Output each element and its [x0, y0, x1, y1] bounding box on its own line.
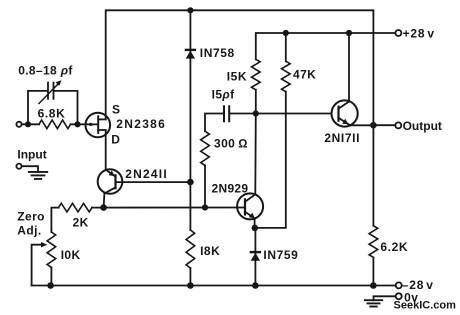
svg-text:+28v: +28v — [403, 26, 435, 40]
capacitor C2 15pf — [223, 106, 225, 121]
svg-text:2NI7II: 2NI7II — [324, 131, 360, 145]
diode D2 1N759 — [251, 252, 260, 261]
svg-text:I5ρf: I5ρf — [212, 88, 235, 102]
wire JFET drain to 2N2411 — [105, 130, 107, 170]
svg-text:D: D — [111, 133, 120, 147]
terminal input ground — [16, 164, 21, 169]
wire bottom rail -28v — [32, 285, 396, 287]
resistor R2 2K — [59, 203, 93, 212]
terminal +28v — [395, 30, 401, 36]
ground (input) — [22, 166, 38, 172]
wire input to gate — [22, 123, 39, 125]
resistor R1 6.8K — [39, 120, 71, 129]
ground (0v) — [374, 296, 396, 300]
svg-text:I0K: I0K — [61, 248, 81, 262]
resistor R5 300 ohm — [201, 131, 210, 165]
diode D1 1N758 — [186, 50, 195, 59]
svg-text:2N24II: 2N24II — [125, 167, 168, 181]
resistor R7 18K — [186, 230, 195, 268]
wire 6.2K leads — [372, 125, 374, 226]
node output junction — [370, 122, 377, 129]
node cap loop left junction — [25, 121, 31, 127]
svg-text:S: S — [112, 103, 120, 117]
svg-text:SeekIC.com: SeekIC.com — [394, 300, 457, 312]
svg-text:Output: Output — [403, 119, 442, 133]
svg-text:6.8K: 6.8K — [38, 107, 66, 121]
wire 2N929 emitter to 1N759 to rail — [254, 218, 256, 228]
terminal 0v — [396, 293, 402, 299]
node 2N929 emitter junction — [252, 225, 259, 232]
resistor R4 47K — [282, 61, 291, 91]
wire pot wiper arm — [32, 245, 43, 286]
svg-text:I5K: I5K — [227, 69, 247, 83]
node 18K bottom junction — [187, 282, 194, 289]
wire node A row: cap to 2N1711 base — [205, 114, 223, 132]
wire 18K bottom lead — [189, 268, 191, 286]
svg-text:0.8–18 ρf: 0.8–18 ρf — [18, 64, 73, 78]
wire zener branch vertical — [189, 10, 191, 230]
node pot bottom junction — [47, 282, 54, 289]
wire emitter/base row y=207.5 — [51, 208, 58, 232]
transistor Q1 2N2386 JFET — [86, 113, 111, 138]
svg-text:Adj.: Adj. — [17, 224, 41, 238]
wire top rail from JFET source to right side — [106, 10, 374, 125]
svg-text:2N2386: 2N2386 — [116, 117, 166, 131]
node A junction dot — [253, 110, 259, 116]
node 1N759 bottom junction — [252, 282, 259, 289]
svg-text:6.2K: 6.2K — [380, 240, 408, 254]
node 2N1711 collector junction — [346, 30, 352, 36]
resistor R8 6.2K — [369, 226, 378, 258]
wire pot bottom lead — [50, 268, 52, 286]
node 2N2411 emitter junction — [100, 204, 107, 211]
wire 15K branch down to node A — [255, 90, 257, 114]
transistor Q4 2N1711 — [332, 33, 374, 127]
svg-text:Zero: Zero — [17, 210, 45, 224]
potentiometer R6 10K — [47, 232, 56, 268]
wire +28v rail — [256, 33, 396, 59]
svg-text:Input: Input — [17, 148, 46, 162]
wire output line — [373, 124, 395, 126]
svg-text:IN758: IN758 — [200, 46, 235, 60]
terminal Output — [395, 122, 401, 128]
node 300 ohm bottom junction — [202, 204, 208, 210]
node 2N2411 base junction — [187, 179, 194, 186]
svg-text:I8K: I8K — [200, 244, 220, 258]
resistor R3 15K — [252, 59, 261, 90]
svg-text:IN759: IN759 — [263, 248, 298, 262]
wire 47K branch vertical — [285, 33, 287, 61]
node 47K top junction — [283, 30, 289, 36]
node cap loop right junction — [74, 121, 80, 127]
svg-text:2N929: 2N929 — [212, 181, 249, 195]
node 6.2K bottom junction — [370, 282, 377, 289]
terminal Input — [16, 122, 21, 127]
svg-text:47K: 47K — [293, 68, 316, 82]
transistor Q2 2N2411 — [98, 169, 123, 207]
svg-text:300Ω: 300Ω — [214, 136, 248, 150]
wire 300 ohm bottom lead — [204, 166, 206, 208]
terminal -28v — [396, 282, 402, 288]
node junction on top rail — [187, 7, 193, 13]
svg-text:2K: 2K — [73, 215, 89, 229]
wire variable capacitor loop — [28, 91, 47, 124]
capacitor C1 0.8-18pf variable — [47, 83, 49, 99]
transistor Q3 2N929 — [237, 114, 263, 220]
wire 2N2411 base to zener line — [116, 181, 191, 183]
